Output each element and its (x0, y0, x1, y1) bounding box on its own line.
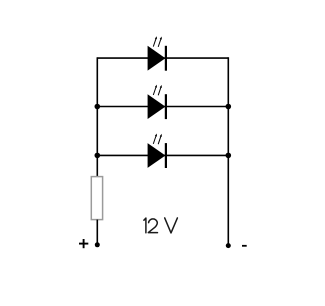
terminal dot minus (negative supply node) (226, 243, 231, 248)
LED D2 (middle branch): triangle, cathode bar, emission arrows (148, 85, 167, 120)
wire left bus vertical (top corner down to resistor top) (96, 57, 98, 176)
junction dot right-middle node (226, 104, 232, 110)
junction dot left-middle node (95, 104, 101, 110)
plus sign label (79, 239, 88, 248)
wire right bus vertical (top corner down to minus terminal) (227, 57, 229, 245)
wire middle horizontal (second LED branch) (97, 106, 228, 108)
LED D1 (top branch): triangle, cathode bar, emission arrows (148, 36, 167, 70)
terminal dot plus (positive supply node) (95, 242, 100, 247)
wire top horizontal (left bus top to right bus top) (97, 57, 228, 59)
wire lower horizontal (third LED branch) (97, 154, 228, 156)
junction dot right-lower node (226, 153, 232, 159)
minus sign label (242, 245, 247, 247)
wire resistor bottom to plus terminal (96, 220, 98, 245)
resistor R (series resistor, gray outline) (91, 177, 102, 220)
label 12 V (supply voltage value) (144, 218, 178, 233)
LED D3 (lower branch): triangle, cathode bar, emission arrows (148, 134, 167, 169)
junction dot left-lower node (95, 153, 101, 159)
